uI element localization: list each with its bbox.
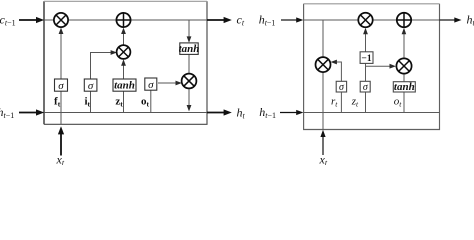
svg-text:−1: −1	[361, 54, 371, 64]
svg-text:σ: σ	[58, 80, 64, 92]
svg-text:tanh: tanh	[114, 80, 135, 92]
svg-text:σ: σ	[148, 79, 154, 91]
svg-text:tanh: tanh	[179, 43, 200, 55]
svg-text:tanh: tanh	[394, 81, 415, 93]
svg-text:σ: σ	[88, 80, 94, 92]
